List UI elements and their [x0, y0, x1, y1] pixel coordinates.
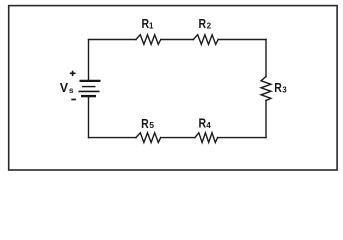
svg-text:R: R: [274, 81, 282, 95]
svg-text:5: 5: [149, 120, 154, 130]
svg-text:3: 3: [282, 85, 287, 94]
svg-text:V: V: [60, 81, 69, 95]
svg-text:R: R: [141, 117, 149, 131]
svg-text:2: 2: [207, 21, 212, 30]
svg-text:s: s: [69, 85, 74, 95]
svg-text:R: R: [199, 117, 207, 131]
svg-text:1: 1: [149, 21, 154, 30]
svg-text:R: R: [199, 17, 207, 31]
svg-text:R: R: [142, 17, 150, 31]
svg-text:4: 4: [206, 121, 211, 130]
